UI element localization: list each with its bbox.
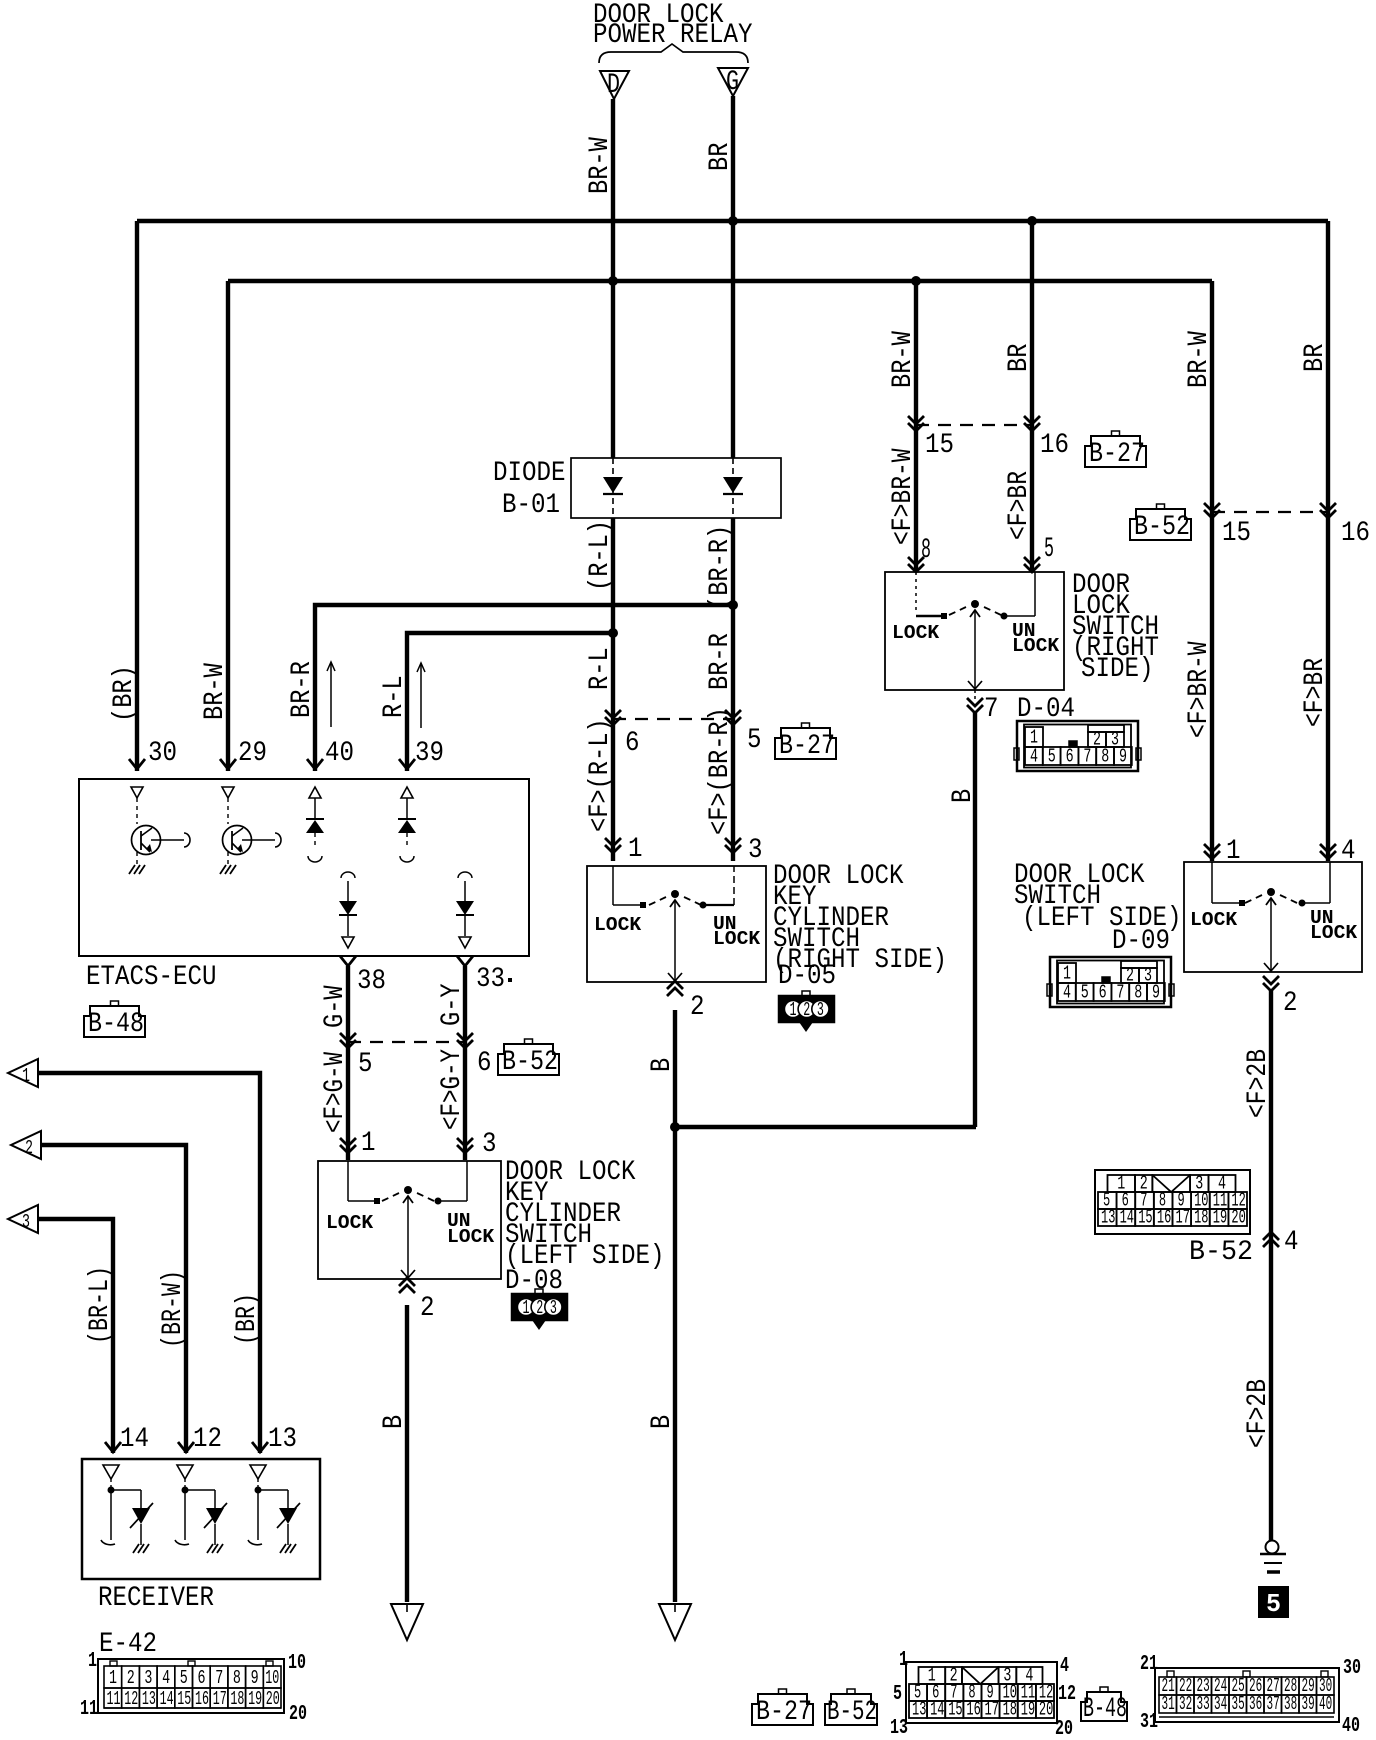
svg-text:7: 7 (1083, 746, 1091, 768)
svg-text:B-27: B-27 (756, 1697, 812, 1728)
inline connector dashed line B-52 pins 5/6 (348, 1041, 465, 1043)
svg-text:33: 33 (476, 964, 505, 995)
svg-text:13: 13 (268, 1424, 297, 1455)
svg-text:8: 8 (1101, 746, 1109, 768)
page ref 5 black box (1258, 1586, 1289, 1618)
svg-text:15: 15 (177, 1688, 191, 1710)
diode D2 right (732, 458, 734, 518)
svg-text:<F>2B: <F>2B (1243, 1049, 1274, 1118)
svg-text:SIDE): SIDE) (1081, 654, 1154, 685)
svg-text:3: 3 (22, 1211, 30, 1233)
svg-text:5: 5 (747, 725, 762, 756)
receiver pin 12 (178, 1442, 194, 1452)
ETACS pin 29 (220, 759, 236, 769)
connector B-48 symbol bottom (1081, 1692, 1127, 1721)
svg-text:D-09: D-09 (1112, 926, 1170, 957)
connector 40-pin diagram bottom (1155, 1668, 1339, 1722)
svg-text:30: 30 (148, 738, 177, 769)
direction arrow up (420, 664, 422, 728)
D-04 switch pole (971, 600, 979, 608)
svg-text:LOCK: LOCK (1012, 635, 1059, 657)
svg-text:(BR): (BR) (232, 1293, 263, 1345)
wire bus B right leg to D-09 pin 1 (1210, 281, 1214, 861)
svg-text:G-Y: G-Y (437, 983, 468, 1026)
svg-text:LOCK: LOCK (1190, 909, 1237, 931)
wire BR from relay G (731, 96, 735, 458)
svg-text:4: 4 (162, 1667, 170, 1689)
wire (R-L) below diode to D-05 pin 1 (611, 518, 615, 861)
svg-text:33: 33 (1197, 1693, 1210, 1715)
wire ETACS pin 40 horizontal (315, 605, 733, 771)
svg-text:B-01: B-01 (502, 490, 560, 521)
svg-text:2: 2 (25, 1137, 33, 1159)
svg-text:2: 2 (803, 999, 810, 1021)
D-04 pin 5 arrow (1024, 557, 1040, 565)
D-09 pin 4 arrow (1320, 844, 1336, 852)
junction dot G x bus A (728, 216, 738, 226)
svg-text:E-42: E-42 (99, 1629, 157, 1660)
svg-text:B-48: B-48 (88, 1009, 144, 1040)
svg-text:2: 2 (690, 992, 705, 1023)
svg-text:8: 8 (921, 535, 931, 566)
svg-text:1: 1 (88, 1650, 97, 1673)
D-08 unlock contact (435, 1198, 442, 1205)
svg-text:(BR-W): (BR-W) (158, 1270, 189, 1348)
connector B-27 symbol bottom (752, 1694, 813, 1725)
svg-text:29: 29 (238, 738, 267, 769)
svg-text:5: 5 (1266, 1589, 1281, 1619)
svg-text:14: 14 (120, 1424, 149, 1455)
wire from triangle 2 (41, 1145, 186, 1453)
svg-text:39: 39 (415, 738, 444, 769)
svg-text:16: 16 (966, 1699, 980, 1721)
svg-text:7: 7 (1116, 982, 1124, 1004)
ETACS transistor T1 (131, 787, 143, 798)
bus A horizontal y=221 (137, 219, 1328, 223)
svg-text:7: 7 (984, 694, 999, 725)
D-08 switch pole (404, 1186, 412, 1194)
svg-text:3: 3 (817, 999, 824, 1021)
wire bus B left leg to ETACS pin 29 (226, 281, 230, 771)
svg-text:6: 6 (477, 1048, 492, 1079)
svg-text:B: B (647, 1415, 678, 1429)
ETACS diode down D6 (458, 872, 472, 878)
wire B from D-05 pin 2 (673, 1010, 677, 1602)
wire ETACS pin 39 horizontal (407, 633, 613, 771)
svg-text:6: 6 (198, 1667, 206, 1689)
door lock switch left side D-09 box (1184, 862, 1362, 972)
svg-text:35: 35 (1232, 1693, 1245, 1715)
D-09 switch pole (1267, 888, 1275, 896)
svg-text:40: 40 (1342, 1715, 1360, 1738)
svg-text:9: 9 (251, 1667, 259, 1689)
wire B from D-04 pin 7 (973, 712, 977, 1127)
svg-text:30: 30 (1343, 1657, 1361, 1680)
D-04 pin 7 arrow (967, 698, 983, 706)
chassis ground (1266, 1541, 1279, 1554)
svg-text:1: 1 (361, 1128, 376, 1159)
wire to D-04 pin 8 (914, 281, 918, 571)
D-09 pin 2 arrow (1263, 976, 1279, 984)
svg-text:6: 6 (1066, 746, 1074, 768)
wire (BR-R) below diode to D-05 pin 3 (731, 518, 735, 861)
svg-text:10: 10 (265, 1667, 279, 1689)
D-04 connector pin diagram (1017, 721, 1138, 771)
svg-text:POWER RELAY: POWER RELAY (593, 20, 753, 51)
svg-text:38: 38 (1284, 1693, 1297, 1715)
D-05 pin 3 arrow (725, 838, 741, 846)
svg-text:<F>2B: <F>2B (1243, 1379, 1274, 1448)
receiver pin 14 (105, 1442, 121, 1452)
ETACS diode up D3 (309, 787, 321, 798)
receiver pin 13 (252, 1442, 268, 1452)
svg-text:5: 5 (180, 1667, 188, 1689)
svg-text:BR: BR (705, 142, 736, 171)
bus B horizontal y=281 (228, 279, 1212, 283)
D-05 unlock contact (700, 902, 707, 909)
ETACS-ECU box (79, 779, 529, 956)
svg-text:11: 11 (107, 1688, 121, 1710)
D-09 pin 1 arrow (1204, 844, 1220, 852)
D-08 pin 2 arrow (399, 1285, 415, 1293)
junction dot B wires (670, 1122, 680, 1132)
svg-text:LOCK: LOCK (892, 622, 939, 644)
D-05 switch pole (671, 890, 679, 898)
svg-text:B-27: B-27 (779, 731, 835, 762)
svg-text:3: 3 (482, 1129, 497, 1160)
svg-text:15: 15 (1222, 518, 1251, 549)
svg-text:LOCK: LOCK (326, 1212, 373, 1234)
svg-text:4: 4 (1284, 1227, 1299, 1258)
connector B-27 symbol (1085, 436, 1146, 467)
svg-text:16: 16 (195, 1688, 209, 1710)
svg-text:15: 15 (948, 1699, 962, 1721)
inline connector dashed line B-27 pins 6/5 (613, 718, 733, 720)
connector E-42 pin diagram (98, 1659, 284, 1713)
offpage triangle 2 (11, 1131, 41, 1159)
svg-text:32: 32 (1179, 1693, 1192, 1715)
svg-text:16: 16 (1157, 1207, 1171, 1229)
svg-text:10: 10 (288, 1652, 306, 1675)
receiver cell 3 (250, 1465, 266, 1479)
svg-text:3: 3 (550, 1297, 557, 1319)
diode D1 left (612, 458, 614, 518)
svg-text:BR-W: BR-W (585, 137, 616, 194)
door lock key cylinder switch right side D-05 box (587, 866, 766, 982)
svg-text:9: 9 (1119, 746, 1127, 768)
D-05 connector pin diagram (779, 996, 834, 1022)
svg-text:17: 17 (1176, 1207, 1190, 1229)
receiver cell 2 (177, 1465, 193, 1479)
connector B-48 symbol (84, 1006, 145, 1037)
svg-text:1: 1 (109, 1667, 117, 1689)
D-08 pin 3 arrow (457, 1138, 473, 1146)
svg-text:B: B (647, 1058, 678, 1072)
svg-text:BR-R: BR-R (705, 633, 736, 690)
svg-text:14: 14 (930, 1699, 944, 1721)
wire bus A right leg to D-09 pin 4 (1326, 221, 1330, 861)
svg-text:4: 4 (1060, 1655, 1069, 1678)
svg-text:<F>G-W: <F>G-W (320, 1052, 351, 1133)
wire bus A left leg to ETACS pin 30 (135, 221, 139, 771)
svg-text:3: 3 (748, 835, 763, 866)
svg-text:18: 18 (1003, 1699, 1017, 1721)
diode box B-01 (571, 458, 781, 518)
door lock key cylinder switch left side D-08 box (318, 1161, 501, 1279)
svg-text:12: 12 (1058, 1683, 1076, 1706)
connector 20-pin diagram bottom (906, 1662, 1057, 1723)
svg-text:B-27: B-27 (1089, 439, 1145, 470)
svg-text:D-08: D-08 (505, 1266, 563, 1297)
svg-text:5: 5 (893, 1683, 902, 1706)
D-08 pin 1 arrow (340, 1138, 356, 1146)
svg-text:BR: BR (1300, 343, 1331, 372)
svg-text:1: 1 (22, 1065, 30, 1087)
D-09 connector pin diagram (1050, 957, 1171, 1007)
svg-text:20: 20 (1231, 1207, 1245, 1229)
svg-text:(R-L): (R-L) (585, 520, 616, 591)
svg-text:18: 18 (1194, 1207, 1208, 1229)
svg-text:DIODE: DIODE (493, 458, 566, 489)
wire G-Y pin33 to D-08 pin 3 (463, 966, 467, 1160)
svg-text:<F>BR: <F>BR (1004, 471, 1035, 540)
offpage triangle down (391, 1604, 423, 1640)
wire to D-04 pin 5 (1030, 221, 1034, 571)
svg-text:4: 4 (1063, 982, 1071, 1004)
D-04 pin 8 arrow (908, 557, 924, 565)
svg-text:39: 39 (1302, 1693, 1315, 1715)
svg-text:(BR): (BR) (109, 665, 140, 722)
svg-text:15: 15 (925, 430, 954, 461)
connector B-52 symbol (498, 1044, 559, 1075)
svg-text:3: 3 (144, 1667, 152, 1689)
svg-text:16: 16 (1341, 518, 1370, 549)
svg-text:5: 5 (1048, 746, 1056, 768)
inline connector dashed line B-52 pins 15/16 (1212, 511, 1328, 513)
wire G-W pin38 to D-08 pin 1 (346, 966, 350, 1160)
svg-text:D: D (607, 70, 620, 101)
B-52 pin 4 arrow (1263, 1239, 1279, 1247)
svg-text:B: B (948, 789, 979, 803)
svg-text:20: 20 (289, 1703, 307, 1726)
ETACS diode up D4 (401, 787, 413, 798)
svg-text:ETACS-ECU: ETACS-ECU (86, 962, 217, 993)
svg-text:R-L: R-L (585, 647, 616, 690)
svg-text:19: 19 (1213, 1207, 1227, 1229)
svg-text:LOCK: LOCK (447, 1226, 494, 1248)
connector B-27 symbol (775, 728, 836, 759)
wire from triangle 1 (38, 1073, 260, 1453)
svg-text:2: 2 (536, 1297, 543, 1319)
ETACS pin 40 (307, 759, 323, 769)
svg-text:12: 12 (124, 1688, 138, 1710)
svg-text:16: 16 (1040, 430, 1069, 461)
svg-text:12: 12 (193, 1424, 222, 1455)
svg-text:21: 21 (1140, 1653, 1158, 1676)
svg-text:17: 17 (213, 1688, 227, 1710)
connector B-52 symbol (1130, 509, 1191, 540)
ETACS pin 38 (340, 956, 356, 966)
svg-text:18: 18 (230, 1688, 244, 1710)
svg-text:5: 5 (1081, 982, 1089, 1004)
door lock switch right side D-04 box (885, 572, 1064, 690)
svg-text:G: G (726, 67, 739, 98)
brace (599, 44, 748, 63)
svg-text:2: 2 (420, 1293, 435, 1324)
svg-text:LOCK: LOCK (594, 914, 641, 936)
ETACS transistor T2 (222, 787, 234, 798)
svg-text:15: 15 (1138, 1207, 1152, 1229)
svg-text:LOCK: LOCK (713, 928, 760, 950)
offpage triangle 1 (8, 1059, 38, 1087)
svg-text:R-L: R-L (379, 675, 410, 718)
wire BR-W from relay D (611, 99, 615, 458)
svg-text:20: 20 (266, 1688, 280, 1710)
svg-text:1: 1 (899, 1649, 908, 1672)
svg-text:6: 6 (625, 728, 640, 759)
svg-text:20: 20 (1055, 1718, 1073, 1740)
svg-text:8: 8 (233, 1667, 241, 1689)
svg-text:9: 9 (1152, 982, 1160, 1004)
svg-text:<F>G-Y: <F>G-Y (437, 1049, 468, 1130)
receiver cell 1 (103, 1465, 119, 1479)
svg-text:RECEIVER: RECEIVER (98, 1583, 214, 1614)
svg-text:BR-W: BR-W (888, 331, 919, 388)
svg-text:2: 2 (127, 1667, 135, 1689)
svg-text:B-52: B-52 (827, 1697, 877, 1728)
svg-text:D-05: D-05 (778, 961, 836, 992)
svg-text:B: B (379, 1415, 410, 1429)
D-04 unlock contact (1001, 613, 1008, 620)
ETACS diode down D5 (341, 872, 355, 878)
connector B-52 20-pin diagram (1095, 1170, 1250, 1234)
svg-text:34: 34 (1214, 1693, 1227, 1715)
offpage triangle down (659, 1604, 691, 1640)
svg-text:13: 13 (890, 1717, 908, 1740)
svg-text:LOCK: LOCK (1310, 922, 1357, 944)
svg-text:BR-W: BR-W (200, 663, 231, 720)
svg-text:40: 40 (1319, 1693, 1332, 1715)
svg-text:1: 1 (628, 834, 643, 865)
svg-text:2: 2 (1283, 988, 1298, 1019)
svg-text:<F>(R-L): <F>(R-L) (585, 718, 616, 832)
svg-text:36: 36 (1249, 1693, 1262, 1715)
connector B-52 symbol bottom (825, 1694, 877, 1725)
junction dot pin40 wire x BR-R (728, 600, 738, 610)
D-08 connector pin diagram (512, 1294, 567, 1320)
svg-text:11: 11 (80, 1698, 98, 1721)
svg-text:31: 31 (1140, 1711, 1158, 1734)
svg-text:6: 6 (1099, 982, 1107, 1004)
svg-text:17: 17 (985, 1699, 999, 1721)
svg-text:<F>BR-W: <F>BR-W (888, 448, 919, 545)
svg-text:G-W: G-W (320, 985, 351, 1028)
svg-text:13: 13 (1101, 1207, 1115, 1229)
svg-text:B-52: B-52 (1189, 1237, 1253, 1268)
svg-text:13: 13 (142, 1688, 156, 1710)
receiver box (82, 1459, 320, 1579)
svg-text:38: 38 (357, 966, 386, 997)
svg-text:<F>(BR-R): <F>(BR-R) (705, 707, 736, 835)
junction dot pin39 wire x R-L (608, 628, 618, 638)
inline connector dashed line B-27 pins 15/16 (916, 424, 1032, 426)
ETACS pin 33 (457, 956, 473, 966)
svg-text:5: 5 (358, 1049, 373, 1080)
direction arrow up (330, 663, 332, 727)
svg-text:B-52: B-52 (502, 1047, 558, 1078)
svg-text:19: 19 (1021, 1699, 1035, 1721)
wire <F>2B from D-09 pin 2 to ground (1269, 990, 1273, 1541)
svg-text:20: 20 (1039, 1699, 1053, 1721)
wire B horizontal from D-04 (675, 1125, 976, 1129)
svg-text:4: 4 (1030, 746, 1038, 768)
svg-text:<F>BR: <F>BR (1300, 658, 1331, 727)
svg-text:40: 40 (325, 738, 354, 769)
offpage triangle 3 (8, 1205, 38, 1233)
svg-text:14: 14 (1120, 1207, 1134, 1229)
svg-text:7: 7 (215, 1667, 223, 1689)
svg-text:1: 1 (790, 999, 797, 1021)
svg-text:1: 1 (523, 1297, 530, 1319)
junction dot D x bus B (608, 276, 618, 286)
wire B from D-08 pin 2 to ground (405, 1305, 409, 1602)
svg-text:BR-W: BR-W (1184, 331, 1215, 388)
svg-text:8: 8 (1134, 982, 1142, 1004)
D-09 unlock contact (1299, 900, 1306, 907)
junction dot bus A x=1032 (1027, 216, 1037, 226)
svg-text:BR-R: BR-R (287, 661, 318, 718)
svg-text:(BR-R): (BR-R) (705, 525, 736, 610)
svg-text:14: 14 (160, 1688, 174, 1710)
svg-text:(BR-L): (BR-L) (85, 1266, 116, 1344)
D-05 pin 2 arrow (667, 988, 683, 996)
D-05 pin 1 arrow (605, 838, 621, 846)
connector triangle G (718, 68, 748, 96)
connector triangle D (600, 71, 629, 99)
svg-text:19: 19 (248, 1688, 262, 1710)
svg-text:37: 37 (1267, 1693, 1280, 1715)
ETACS pin 39 (399, 759, 415, 769)
svg-text:BR: BR (1004, 343, 1035, 372)
svg-text:13: 13 (912, 1699, 926, 1721)
junction dot bus B x=916 (911, 276, 921, 286)
svg-text:5: 5 (1044, 534, 1054, 565)
svg-text:B-48: B-48 (1083, 1694, 1127, 1725)
wire from triangle 3 (38, 1219, 113, 1453)
ETACS pin 30 (129, 759, 145, 769)
svg-text:<F>BR-W: <F>BR-W (1184, 641, 1215, 738)
svg-text:B-52: B-52 (1134, 512, 1190, 543)
svg-text:31: 31 (1162, 1693, 1175, 1715)
